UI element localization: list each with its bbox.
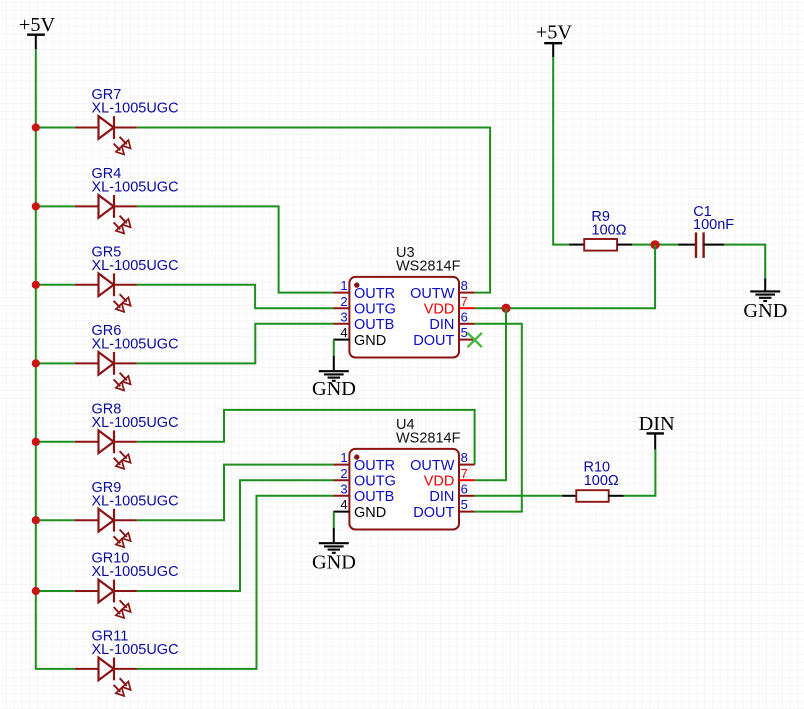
pin 3 OUTB of U3	[333, 309, 394, 333]
wire U4 DIN to R10	[475, 495, 563, 497]
svg-text:XL-1005UGC: XL-1005UGC	[92, 101, 179, 117]
LED GR9 (GR9 XL-1005UGC)	[36, 480, 179, 547]
svg-text:4: 4	[340, 325, 347, 340]
wire +5V right to R9	[553, 57, 569, 245]
junction bus/GR8	[32, 438, 40, 446]
svg-text:2: 2	[340, 466, 347, 481]
junction bus/GR5	[32, 281, 40, 289]
svg-text:VDD: VDD	[424, 473, 455, 489]
pin 5 DOUT of U3	[413, 325, 474, 349]
svg-text:DIN: DIN	[429, 489, 454, 505]
wire GR8 anode to U4 OUTW	[137, 410, 475, 465]
wire GR11 anode to U4 OUTB	[137, 496, 334, 669]
svg-text:OUTR: OUTR	[354, 286, 395, 302]
svg-text:100Ω: 100Ω	[584, 473, 619, 489]
svg-text:OUTW: OUTW	[410, 458, 455, 474]
pin 3 OUTB of U4	[333, 481, 394, 505]
svg-text:DIN: DIN	[639, 413, 675, 435]
junction R9/C1/VDD	[651, 240, 660, 249]
pin 7 VDD of U3	[424, 294, 475, 318]
IC U4 WS2814F	[349, 417, 460, 530]
svg-text:5: 5	[461, 497, 468, 512]
svg-text:XL-1005UGC: XL-1005UGC	[92, 493, 179, 509]
LED GR10 (GR10 XL-1005UGC)	[36, 551, 179, 618]
svg-text:OUTR: OUTR	[354, 458, 395, 474]
svg-text:XL-1005UGC: XL-1005UGC	[92, 564, 179, 580]
LED GR7 (GR7 XL-1005UGC)	[36, 87, 179, 154]
pin 7 VDD of U4	[424, 466, 475, 490]
svg-text:GND: GND	[743, 300, 787, 322]
wire GR4 anode to U3 OUTR	[137, 206, 334, 292]
pin 6 DIN of U3	[429, 309, 474, 333]
pin 1 OUTR of U3	[333, 278, 395, 302]
svg-text:XL-1005UGC: XL-1005UGC	[92, 337, 179, 353]
junction bus/GR10	[32, 587, 40, 595]
wire R10 to DIN flag	[624, 449, 656, 495]
pin 4 GND of U3	[333, 325, 386, 349]
wire GR6 anode to U3 OUTB	[137, 324, 334, 364]
pin 1 OUTR of U4	[333, 450, 395, 474]
pin 2 OUTG of U4	[333, 466, 395, 490]
resistor R9 100Ω	[569, 209, 632, 251]
pin 6 DIN of U4	[429, 481, 474, 505]
svg-text:WS2814F: WS2814F	[396, 431, 461, 447]
junction bus/GR4	[32, 202, 40, 210]
pin 8 OUTW of U3	[410, 278, 474, 302]
svg-text:VDD: VDD	[424, 301, 455, 317]
svg-text:GND: GND	[312, 551, 356, 573]
svg-text:1: 1	[340, 278, 347, 293]
svg-text:3: 3	[340, 309, 347, 324]
svg-text:8: 8	[461, 278, 468, 293]
wire GR10 anode to U4 OUTG	[137, 480, 334, 591]
svg-text:OUTB: OUTB	[354, 489, 394, 505]
svg-text:3: 3	[340, 481, 347, 496]
svg-text:OUTB: OUTB	[354, 317, 394, 333]
wire C1 to GND	[724, 245, 765, 279]
svg-text:+5V: +5V	[19, 14, 56, 36]
junction bus/GR7	[32, 123, 40, 131]
power flag +5V (left)	[19, 14, 56, 49]
svg-text:XL-1005UGC: XL-1005UGC	[92, 258, 179, 274]
wire GR5 anode to U3 OUTG	[137, 285, 334, 308]
ground GND (U3 pin 4)	[312, 340, 356, 400]
svg-text:DOUT: DOUT	[413, 333, 454, 349]
wire U3 DIN to U4 DOUT	[475, 324, 522, 512]
power flag +5V (right)	[536, 21, 573, 57]
svg-text:DIN: DIN	[429, 317, 454, 333]
wire GR9 anode to U4 OUTR	[137, 465, 334, 521]
svg-text:100nF: 100nF	[693, 217, 734, 233]
LED GR6 (GR6 XL-1005UGC)	[36, 323, 179, 390]
LED GR4 (GR4 XL-1005UGC)	[36, 166, 179, 233]
svg-text:100Ω: 100Ω	[592, 223, 627, 239]
svg-text:1: 1	[340, 450, 347, 465]
svg-text:4: 4	[340, 497, 347, 512]
no-connect X (U3 pin 5 DOUT)	[468, 333, 482, 347]
ground GND (U4 pin 4)	[312, 512, 356, 574]
resistor R10 100Ω	[562, 460, 623, 502]
svg-text:OUTG: OUTG	[354, 301, 396, 317]
svg-text:WS2814F: WS2814F	[396, 259, 461, 275]
svg-text:7: 7	[461, 466, 468, 481]
wire U3 VDD junction down to U4 VDD	[475, 308, 506, 480]
junction bus/GR6	[32, 359, 40, 367]
pin 8 OUTW of U4	[410, 450, 474, 474]
IC U3 WS2814F	[349, 245, 460, 358]
svg-text:DOUT: DOUT	[413, 505, 454, 521]
pin 5 DOUT of U4	[413, 497, 474, 521]
LED GR11 (GR11 XL-1005UGC)	[75, 629, 179, 696]
svg-text:XL-1005UGC: XL-1005UGC	[92, 415, 179, 431]
svg-text:GND: GND	[312, 378, 356, 400]
wire junction down to U3 VDD	[475, 245, 655, 309]
svg-text:GND: GND	[354, 333, 386, 349]
svg-text:XL-1005UGC: XL-1005UGC	[92, 642, 179, 658]
net flag DIN	[639, 413, 675, 450]
wire R9 to C1	[632, 244, 678, 246]
svg-text:OUTG: OUTG	[354, 473, 396, 489]
svg-text:7: 7	[461, 294, 468, 309]
wire GR7 anode to U3 OUTW	[137, 128, 490, 293]
svg-text:OUTW: OUTW	[410, 286, 455, 302]
wire +5V left bus	[36, 49, 75, 669]
svg-text:8: 8	[461, 450, 468, 465]
svg-text:GND: GND	[354, 505, 386, 521]
junction bus/GR9	[32, 516, 40, 524]
svg-text:5: 5	[461, 325, 468, 340]
junction U3 VDD / U4 VDD	[501, 304, 510, 313]
svg-text:6: 6	[461, 309, 468, 324]
svg-text:2: 2	[340, 294, 347, 309]
svg-text:6: 6	[461, 481, 468, 496]
capacitor C1 100nF	[678, 204, 734, 258]
svg-text:+5V: +5V	[536, 21, 573, 43]
pin 2 OUTG of U3	[333, 294, 395, 318]
pin 4 GND of U4	[333, 497, 386, 521]
svg-text:XL-1005UGC: XL-1005UGC	[92, 180, 179, 196]
LED GR8 (GR8 XL-1005UGC)	[36, 401, 179, 468]
ground GND (C1)	[743, 278, 787, 322]
LED GR5 (GR5 XL-1005UGC)	[36, 244, 179, 311]
